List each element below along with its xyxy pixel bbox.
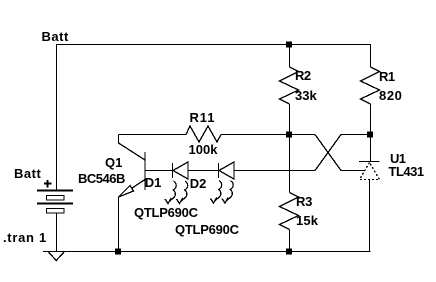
resistor R2 designator label <box>295 69 311 82</box>
resistor R2 body <box>280 67 299 104</box>
battery V1 plate long top <box>37 190 73 192</box>
battery plus sign <box>44 180 52 188</box>
battery V1 short thick plate 2 <box>47 209 65 214</box>
transistor Q1 value label BC546B <box>78 172 125 185</box>
wire D1 to D2 <box>188 170 219 172</box>
wire ground rail <box>43 251 371 253</box>
wire D2 to crossover <box>234 170 315 172</box>
resistor R11 value label 100k <box>189 143 218 156</box>
shunt regulator U1 value label TL431 <box>389 165 424 178</box>
LED D1 <box>172 163 174 178</box>
wire R11 right to crossover <box>221 134 315 136</box>
wire R2 bottom down to R3 (crosses LED row, no connect) <box>289 135 291 193</box>
resistor R1 body <box>361 67 380 104</box>
transistor Q1 emitter arrow (open) <box>119 186 134 198</box>
resistor R2 bottom wire <box>289 104 291 135</box>
LED D2 <box>218 163 220 178</box>
wire R3 bottom to ground rail <box>289 230 291 252</box>
light arrows D1 <box>169 181 176 202</box>
node junction dot R1 bottom <box>367 132 373 138</box>
LED D1 designator label <box>145 176 162 189</box>
spice directive .tran 1 <box>3 231 47 244</box>
wire crossover top-left to TL431 ref <box>315 135 364 171</box>
TL431 U1 cathode bar <box>359 161 380 163</box>
TL431 U1 triangle (dotted) <box>360 163 380 180</box>
wire crossover bottom-left to R1 bottom node <box>315 135 371 171</box>
battery V1 name label Batt <box>14 167 41 180</box>
wire collector node to R11 <box>119 134 187 136</box>
shunt regulator U1 designator label <box>390 152 405 165</box>
resistor R3 designator label <box>296 195 312 208</box>
resistor R1 designator label <box>379 70 395 83</box>
LED D2 value label QTLP690C <box>175 223 239 236</box>
wire base row Q1 to D1 <box>145 170 173 172</box>
wire R1 bottom <box>370 104 372 135</box>
LED D2 designator label <box>190 177 207 190</box>
node junction dot R2 top on Batt rail <box>286 42 292 48</box>
resistor R3 body <box>280 193 299 230</box>
wire TL431 anode to ground rail <box>369 180 371 252</box>
battery V1 short thick plate 1 <box>47 196 65 201</box>
resistor R1 value label 820 <box>379 89 403 102</box>
resistor R3 value label 15k <box>296 214 318 227</box>
transistor Q1 emitter lead <box>119 180 146 198</box>
node junction dot emitter/ground <box>115 249 121 255</box>
net label Batt (top rail) <box>42 30 69 43</box>
LED D1 value label QTLP690C <box>134 206 198 219</box>
transistor Q1 collector lead <box>119 135 146 161</box>
battery V1 plate long middle <box>37 203 73 205</box>
node junction dot R3 bottom <box>286 249 292 255</box>
wire battery bottom to ground rail <box>56 213 58 252</box>
wire R1 node down to TL431 cathode <box>370 135 372 162</box>
resistor R11 designator label <box>190 111 216 124</box>
wire Q1 emitter down to ground rail <box>118 197 120 252</box>
wire Batt net: left rail, top rail, R1 top lead <box>57 45 371 191</box>
ground symbol <box>48 252 65 261</box>
transistor Q1 base bar <box>144 152 146 190</box>
resistor R2 value label 33k <box>295 89 317 102</box>
transistor Q1 designator label <box>105 156 122 169</box>
wire R2 top lead <box>289 45 291 68</box>
light arrows D2 <box>215 181 222 202</box>
resistor R11 body <box>186 126 221 142</box>
node feedback junction dot R2 bottom <box>286 132 292 138</box>
